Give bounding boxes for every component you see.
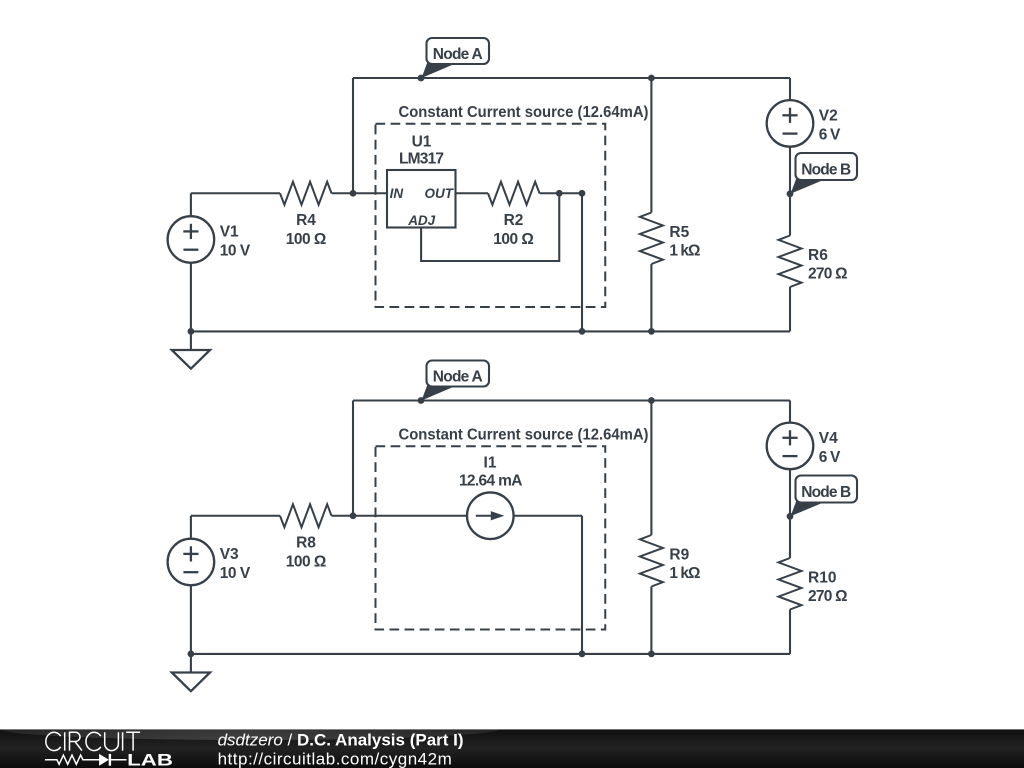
current source I1 12.64 mA: [467, 492, 514, 539]
svg-text:10 V: 10 V: [220, 243, 251, 260]
junction dot: R9 at top rail: [648, 397, 655, 404]
svg-text:IN: IN: [390, 186, 404, 201]
resistor R9 1 kOhm: [640, 535, 663, 587]
wire: R2 to output corner: [540, 192, 583, 194]
svg-text:100 Ω: 100 Ω: [286, 231, 327, 248]
svg-text:LAB: LAB: [127, 750, 173, 768]
wire: output node down to ground rail: [581, 516, 583, 654]
resistor R6 270 Ohm: [779, 236, 802, 288]
svg-text:V2: V2: [819, 107, 838, 124]
svg-text:LM317: LM317: [399, 151, 444, 168]
wire: left vertical from top rail down to IN node: [352, 401, 354, 516]
svg-text:Node B: Node B: [801, 162, 851, 179]
junction dot: ground rail below source: [188, 328, 195, 335]
footer bar: [0, 729, 1024, 768]
svg-text:Node A: Node A: [433, 46, 483, 63]
svg-text:I1: I1: [484, 454, 497, 471]
junction dot: output at ground rail: [579, 651, 586, 658]
dashed box: constant current source group: [376, 124, 606, 307]
wire: output node down to ground rail: [581, 193, 583, 331]
resistor R2 100 Ohm: [488, 182, 540, 205]
voltage source V1 10 V: [168, 216, 215, 263]
svg-text:Node A: Node A: [433, 369, 483, 386]
wire: top rail right corner down to V2: [789, 78, 791, 100]
junction dot at IN node: [350, 190, 357, 197]
svg-text:V3: V3: [220, 546, 239, 563]
svg-text:6 V: 6 V: [819, 126, 841, 143]
wire: V4 bottom down to resistor R10 (node B net): [789, 469, 791, 558]
svg-text:dsdtzero / D.C. Analysis (Part: dsdtzero / D.C. Analysis (Part I): [218, 731, 464, 750]
wire: V1 top lead up and right to resistor R4: [190, 193, 192, 216]
svg-text:R8: R8: [296, 535, 316, 552]
voltage source V3 10 V: [168, 539, 215, 586]
svg-text:R10: R10: [808, 569, 836, 586]
junction dot: R9 at ground rail: [648, 651, 655, 658]
wire: resistor R8 to junction at IN node: [332, 515, 467, 517]
svg-text:12.64 mA: 12.64 mA: [459, 473, 523, 490]
svg-text:10 V: 10 V: [220, 565, 251, 582]
wire: R5 vertical from top rail: [650, 78, 652, 213]
svg-text:R9: R9: [669, 546, 689, 563]
ground: [190, 331, 192, 350]
svg-text:1 kΩ: 1 kΩ: [669, 565, 700, 582]
wire: top rail (node A net): [353, 77, 790, 79]
wire: R10 bottom lead to ground rail: [789, 610, 791, 654]
wire: R5 bottom lead to ground rail: [650, 264, 652, 331]
wire: V3 bottom lead down to ground rail: [190, 585, 192, 654]
wire: V2 bottom down to resistor R6 (node B net): [789, 147, 791, 236]
wire: V3 top lead up and right to resistor R8: [190, 516, 192, 539]
wire: left vertical from top rail down to IN node: [352, 78, 354, 193]
wire: top rail right corner down to V4: [789, 401, 791, 423]
svg-text:Node B: Node B: [801, 484, 851, 501]
svg-text:ADJ: ADJ: [407, 213, 435, 228]
wire: bottom ground rail: [191, 330, 790, 332]
svg-text:1 kΩ: 1 kΩ: [669, 243, 700, 260]
junction dot: ground rail below source: [188, 651, 195, 658]
wire: R9 bottom lead to ground rail: [650, 587, 652, 654]
junction dot at IN node: [350, 512, 357, 519]
junction dot: output corner: [579, 190, 586, 197]
wire: ADJ feedback down, right, up to R2 output: [420, 228, 422, 263]
svg-text:Constant Current source (12.64: Constant Current source (12.64mA): [399, 426, 649, 443]
svg-text:V4: V4: [819, 430, 838, 447]
svg-text:R2: R2: [504, 212, 524, 229]
svg-text:R6: R6: [808, 247, 828, 264]
resistor R4 100 Ohm: [280, 182, 332, 205]
svg-text:V1: V1: [220, 224, 239, 241]
resistor R5 1 kOhm: [640, 213, 663, 265]
svg-text:R5: R5: [669, 224, 689, 241]
svg-text:OUT: OUT: [425, 186, 455, 201]
wire: OUT pin to resistor R2: [456, 192, 489, 194]
svg-text:Constant Current source (12.64: Constant Current source (12.64mA): [399, 104, 649, 121]
regulator U1 LM317: [387, 170, 456, 228]
svg-text:R4: R4: [296, 212, 316, 229]
resistor R8 100 Ohm: [280, 504, 332, 527]
svg-text:100 Ω: 100 Ω: [493, 231, 534, 248]
voltage source V2 6 V: [767, 100, 814, 147]
node B label: [791, 178, 825, 194]
wire: top rail (node A net): [353, 399, 790, 401]
logo resistor-diode glyph: [45, 755, 99, 764]
voltage source V4 6 V: [767, 423, 814, 470]
wire: V1 bottom lead down to ground rail: [190, 263, 192, 332]
dashed box: constant current source group: [376, 446, 606, 629]
wire: bottom ground rail: [191, 653, 790, 655]
wire: I1 output to corner: [514, 515, 582, 517]
resistor R10 270 Ohm: [779, 558, 802, 610]
junction dot: R5 at top rail: [648, 75, 655, 82]
node A label: [422, 385, 456, 401]
svg-text:270 Ω: 270 Ω: [808, 266, 848, 283]
svg-text:http://circuitlab.com/cygn42m: http://circuitlab.com/cygn42m: [218, 749, 453, 768]
node A label: [422, 62, 456, 78]
svg-text:100 Ω: 100 Ω: [286, 554, 327, 571]
wire: resistor R4 to junction at IN node: [332, 192, 388, 194]
junction dot: feedback tap: [556, 190, 563, 197]
ground: [190, 654, 192, 673]
junction dot: R5 at ground rail: [648, 328, 655, 335]
junction dot: output at ground rail: [579, 328, 586, 335]
wire: R9 vertical from top rail: [650, 401, 652, 536]
svg-text:270 Ω: 270 Ω: [808, 588, 848, 605]
svg-text:U1: U1: [412, 133, 432, 150]
wire: R6 bottom lead to ground rail: [789, 287, 791, 331]
logo CIRCUIT (thin outline letters): [46, 732, 140, 750]
node B label: [791, 501, 825, 517]
svg-text:6 V: 6 V: [819, 449, 841, 466]
